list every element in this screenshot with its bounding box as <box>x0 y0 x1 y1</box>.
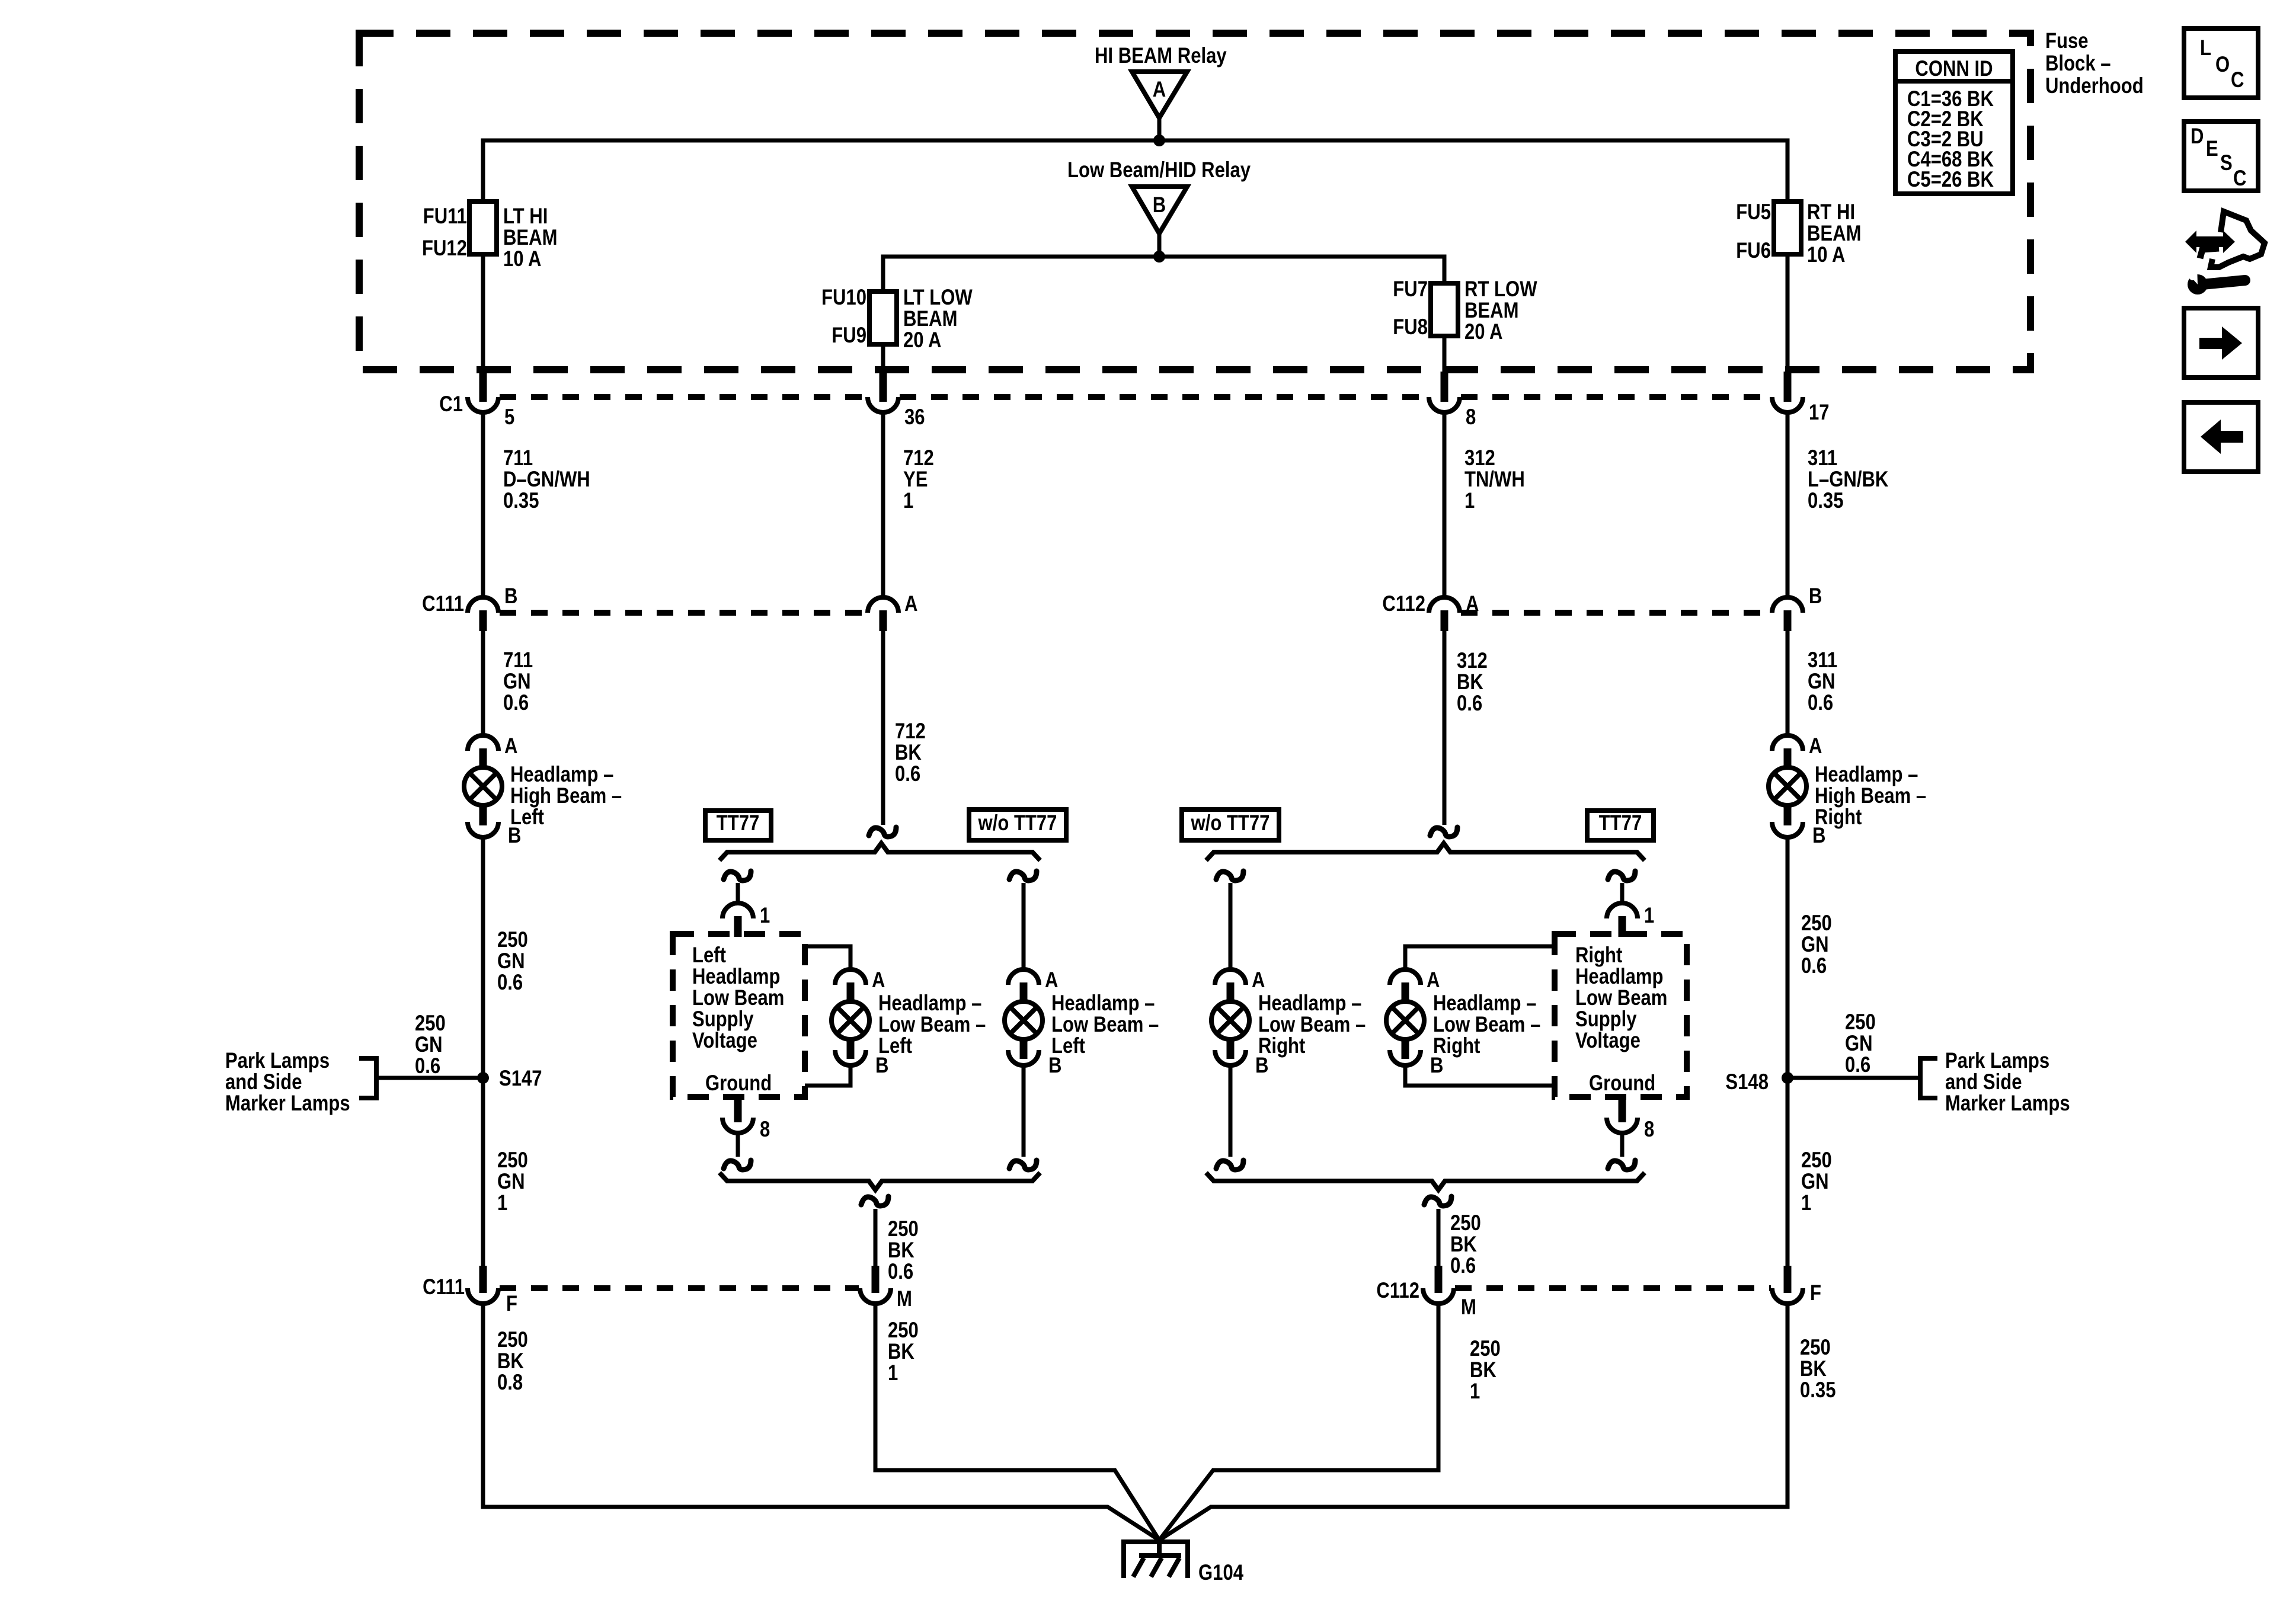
svg-text:F: F <box>506 1292 517 1316</box>
svg-text:GN: GN <box>415 1033 443 1057</box>
svg-text:8: 8 <box>1644 1118 1654 1142</box>
svg-text:B: B <box>1809 584 1822 609</box>
svg-text:FU8: FU8 <box>1393 315 1428 340</box>
svg-text:10 A: 10 A <box>503 247 541 271</box>
svg-text:TN/WH: TN/WH <box>1464 468 1525 492</box>
svg-text:GN: GN <box>497 949 525 974</box>
wire FU5 to C1 <box>1786 254 1790 372</box>
lamp headlamp low beam right (TT77) <box>1386 968 1443 1078</box>
svg-text:L: L <box>2200 36 2211 60</box>
connector C1 pin 17 <box>1772 372 1830 425</box>
label 711 GN 0.6 <box>503 648 533 715</box>
svg-text:A: A <box>904 592 917 616</box>
svg-text:Fuse: Fuse <box>2045 29 2089 53</box>
wire low beam feed bus <box>883 257 1444 292</box>
svg-text:Low Beam –: Low Beam – <box>1051 1013 1159 1037</box>
splice S148 <box>1725 1070 1793 1094</box>
CONN ID table <box>1895 52 2013 194</box>
svg-text:GN: GN <box>1845 1032 1873 1056</box>
wire 712 BK 0.6 <box>881 631 885 825</box>
label 250 GN 1 left <box>497 1148 528 1215</box>
option box TT77 left <box>705 811 771 840</box>
svg-text:A: A <box>1809 734 1822 758</box>
svg-text:FU7: FU7 <box>1393 277 1428 302</box>
svg-text:B: B <box>504 584 517 609</box>
svg-text:Underhood: Underhood <box>2045 74 2144 98</box>
svg-text:Ground: Ground <box>705 1071 772 1096</box>
connector C112 pin B <box>1772 584 1822 631</box>
fuse FU11/FU12 LT HI BEAM 10 A <box>422 201 557 271</box>
connector C111 pin M <box>860 1266 912 1311</box>
label Headlamp Low Beam Right (TT77) <box>1433 991 1540 1058</box>
wire low beam lamp left B to ground node <box>805 1065 850 1086</box>
wire high beam right to S148 <box>1786 837 1790 1266</box>
label 311 GN 0.6 <box>1808 648 1837 715</box>
svg-text:Low Beam –: Low Beam – <box>1258 1013 1366 1037</box>
svg-text:Right: Right <box>1815 805 1862 830</box>
wire hi beam feed bus <box>483 140 1787 201</box>
svg-text:1: 1 <box>1644 904 1654 928</box>
svg-text:GN: GN <box>503 670 531 694</box>
svg-text:Right: Right <box>1433 1034 1480 1058</box>
wire 311 GN 0.6 <box>1786 631 1790 736</box>
wire 250 BK 1 right to G104 <box>1159 1304 1438 1540</box>
svg-text:Right: Right <box>1575 943 1622 968</box>
svg-text:1: 1 <box>760 904 770 928</box>
svg-text:A: A <box>504 734 517 758</box>
svg-text:BK: BK <box>1800 1357 1827 1381</box>
connector C112 pin M <box>1423 1266 1476 1320</box>
svg-text:Left: Left <box>692 943 726 968</box>
svg-text:w/o TT77: w/o TT77 <box>978 811 1057 836</box>
svg-text:1: 1 <box>1801 1191 1811 1215</box>
svg-text:1: 1 <box>888 1361 898 1385</box>
svg-text:FU10: FU10 <box>821 286 866 310</box>
svg-text:5: 5 <box>504 405 514 430</box>
svg-text:C5=26 BK: C5=26 BK <box>1907 168 1994 192</box>
wire park lamps branch left <box>359 1058 483 1098</box>
icon forward arrow <box>2184 308 2258 377</box>
svg-text:Left: Left <box>510 805 544 830</box>
svg-text:LT HI: LT HI <box>503 204 548 229</box>
svg-text:Voltage: Voltage <box>692 1029 757 1053</box>
svg-text:BEAM: BEAM <box>1807 222 1861 246</box>
svg-text:711: 711 <box>503 648 533 673</box>
svg-text:0.6: 0.6 <box>415 1054 440 1078</box>
wire FU10 to C1 <box>881 344 885 372</box>
wire high beam left to S147 <box>481 837 485 1266</box>
svg-text:FU12: FU12 <box>422 236 467 261</box>
svg-text:711: 711 <box>503 446 533 470</box>
fuse FU5/FU6 RT HI BEAM 10 A <box>1736 200 1861 267</box>
lamp headlamp low beam left (w/o TT77) <box>1005 968 1061 1078</box>
svg-text:250: 250 <box>1801 911 1832 936</box>
svg-text:250: 250 <box>497 928 528 952</box>
component box Left Headlamp Low Beam Supply Voltage <box>673 934 805 1097</box>
svg-text:Headlamp –: Headlamp – <box>510 763 613 787</box>
label Park Lamps and Side Marker Lamps left <box>225 1049 350 1116</box>
label 712 BK 0.6 <box>895 719 926 786</box>
label C1 <box>439 392 463 417</box>
svg-text:20 A: 20 A <box>903 328 941 353</box>
wire park lamps branch right <box>1787 1058 1937 1098</box>
svg-text:Low Beam –: Low Beam – <box>878 1013 986 1037</box>
svg-text:Block –: Block – <box>2045 52 2111 76</box>
svg-text:Low Beam: Low Beam <box>1575 986 1667 1010</box>
svg-text:w/o TT77: w/o TT77 <box>1191 811 1270 836</box>
svg-text:250: 250 <box>888 1318 919 1343</box>
svg-text:BK: BK <box>1457 670 1483 694</box>
svg-text:250: 250 <box>1801 1148 1832 1173</box>
svg-text:FU6: FU6 <box>1736 239 1771 263</box>
label 250 BK 1 left <box>888 1318 919 1385</box>
svg-text:C111: C111 <box>422 592 464 616</box>
svg-text:A: A <box>1466 592 1479 616</box>
label 250 GN 0.6 park branch right <box>1845 1010 1876 1077</box>
svg-text:GN: GN <box>1801 1170 1829 1194</box>
connector C112 pin A <box>1429 592 1479 631</box>
svg-text:0.6: 0.6 <box>1801 954 1827 978</box>
wire left TT77 branch <box>736 883 740 903</box>
wire right w/o lamp down <box>1229 1065 1233 1157</box>
wire 250 BK 1 left to G104 <box>875 1304 1159 1540</box>
svg-text:LT LOW: LT LOW <box>903 286 973 310</box>
svg-text:250: 250 <box>415 1012 446 1036</box>
svg-text:0.6: 0.6 <box>1450 1254 1476 1278</box>
svg-text:0.6: 0.6 <box>497 971 523 995</box>
svg-text:Headlamp –: Headlamp – <box>878 991 981 1016</box>
svg-text:RT HI: RT HI <box>1807 200 1855 225</box>
junction relay B <box>1153 251 1165 263</box>
svg-text:312: 312 <box>1457 649 1488 673</box>
connector line C111 bottom dotted <box>500 1285 859 1291</box>
svg-text:C112: C112 <box>1382 592 1425 616</box>
wire break right TT77 branch bottom <box>1608 1160 1635 1170</box>
lamp headlamp low beam left (TT77) <box>832 968 888 1078</box>
svg-text:High Beam –: High Beam – <box>510 784 622 808</box>
svg-text:Headlamp: Headlamp <box>692 965 780 989</box>
svg-text:Marker Lamps: Marker Lamps <box>225 1092 350 1116</box>
svg-text:250: 250 <box>1800 1336 1831 1360</box>
svg-text:A: A <box>1045 968 1058 993</box>
svg-text:A: A <box>872 968 885 993</box>
svg-text:A: A <box>1252 968 1265 993</box>
svg-text:S147: S147 <box>499 1067 542 1091</box>
svg-text:L–GN/BK: L–GN/BK <box>1808 468 1889 492</box>
lamp headlamp high beam right <box>1769 734 1825 848</box>
wire 312 BK 0.6 <box>1443 631 1447 825</box>
svg-text:M: M <box>897 1287 912 1311</box>
label Headlamp Low Beam Left (w/o TT77) <box>1051 991 1159 1058</box>
svg-text:Headlamp –: Headlamp – <box>1258 991 1361 1016</box>
label 250 GN 0.6 park branch left <box>415 1012 446 1078</box>
svg-text:712: 712 <box>903 446 934 470</box>
wire break right TT77 branch top <box>1608 871 1635 881</box>
svg-text:1: 1 <box>903 489 913 513</box>
label C111 <box>422 592 464 616</box>
svg-text:0.35: 0.35 <box>1800 1378 1835 1403</box>
label Headlamp High Beam Left <box>510 763 622 830</box>
svg-text:High Beam –: High Beam – <box>1815 784 1926 808</box>
svg-text:C: C <box>2231 68 2244 92</box>
svg-text:10 A: 10 A <box>1807 243 1845 267</box>
fuse FU10/FU9 LT LOW BEAM 20 A <box>821 286 973 353</box>
svg-text:GN: GN <box>1801 933 1829 957</box>
svg-text:250: 250 <box>1450 1211 1481 1235</box>
wire FU7 to C1 <box>1443 336 1447 372</box>
icon vehicle service (car and wrench) <box>2183 212 2265 295</box>
svg-text:Low Beam: Low Beam <box>692 986 784 1010</box>
connector pin 1 left <box>722 903 770 937</box>
label Headlamp Low Beam Right (w/o TT77) <box>1258 991 1366 1058</box>
relay B Low Beam/HID Relay <box>1067 158 1251 257</box>
svg-text:0.6: 0.6 <box>888 1260 913 1284</box>
svg-text:BK: BK <box>888 1238 914 1263</box>
wire right TT77 branch <box>1620 883 1625 903</box>
svg-text:A: A <box>1153 78 1166 102</box>
svg-text:GN: GN <box>1808 670 1835 694</box>
svg-text:8: 8 <box>1466 405 1476 430</box>
svg-text:C112: C112 <box>1376 1279 1419 1303</box>
option brace right bottom <box>1206 1173 1645 1190</box>
svg-text:B: B <box>1153 193 1166 217</box>
label 311 L-GN/BK 0.35 <box>1808 446 1889 513</box>
svg-text:1: 1 <box>497 1191 507 1215</box>
svg-text:8: 8 <box>760 1118 770 1142</box>
label 711 D-GN/WH 0.35 <box>503 446 590 513</box>
svg-text:HI BEAM Relay: HI BEAM Relay <box>1095 44 1227 68</box>
wire break right w/o branch bottom <box>1216 1160 1243 1170</box>
svg-text:Park Lamps: Park Lamps <box>225 1049 330 1073</box>
fuse FU7/FU8 RT LOW BEAM 20 A <box>1393 277 1537 344</box>
svg-text:BK: BK <box>1470 1358 1496 1382</box>
label Headlamp Low Beam Left (TT77) <box>878 991 986 1058</box>
svg-text:M: M <box>1461 1295 1476 1320</box>
wire break left w/o branch top <box>1009 871 1037 881</box>
connector line C112 bottom dotted <box>1455 1285 1771 1291</box>
label C111 bottom <box>423 1275 465 1299</box>
wire break below left brace <box>861 1196 888 1206</box>
connector C111 pin F <box>468 1266 517 1316</box>
svg-text:O: O <box>2215 53 2230 77</box>
svg-text:Headlamp –: Headlamp – <box>1815 763 1918 787</box>
svg-text:C1: C1 <box>439 392 463 417</box>
svg-text:1: 1 <box>1470 1379 1480 1404</box>
svg-text:E: E <box>2206 137 2218 161</box>
svg-text:Supply: Supply <box>692 1007 754 1032</box>
wire 250 BK 0.6 left <box>874 1209 878 1267</box>
svg-text:Headlamp –: Headlamp – <box>1051 991 1155 1016</box>
svg-text:and Side: and Side <box>225 1070 302 1094</box>
svg-text:Low Beam –: Low Beam – <box>1433 1013 1540 1037</box>
wire break left TT77 branch top <box>724 871 751 881</box>
connector pin 8 left <box>722 1097 770 1142</box>
svg-text:D: D <box>2191 124 2204 149</box>
svg-text:C: C <box>2233 167 2246 191</box>
svg-text:RT LOW: RT LOW <box>1464 277 1537 302</box>
label 250 BK 0.35 <box>1800 1336 1835 1403</box>
svg-text:C111: C111 <box>423 1275 465 1299</box>
svg-text:D–GN/WH: D–GN/WH <box>503 468 590 492</box>
label 250 GN 0.6 right <box>1801 911 1832 978</box>
label Fuse Block Underhood <box>2045 29 2144 98</box>
svg-text:and Side: and Side <box>1945 1070 2022 1094</box>
wire 250 BK 0.6 right <box>1437 1209 1441 1267</box>
wire 711 D-GN/WH 0.35 <box>481 412 485 597</box>
svg-text:Supply: Supply <box>1575 1007 1637 1032</box>
component box Right Headlamp Low Beam Supply Voltage <box>1555 934 1687 1097</box>
wire left w/o lamp down <box>1022 1065 1026 1157</box>
svg-text:BK: BK <box>895 741 922 765</box>
option box w/o TT77 left <box>969 809 1066 840</box>
icon back arrow <box>2184 402 2258 472</box>
wire pin 8 right down <box>1620 1133 1625 1157</box>
connector pin 1 right <box>1607 903 1654 937</box>
junction relay A <box>1153 135 1165 146</box>
connector C1 pin 36 <box>868 372 925 430</box>
option brace left top <box>720 843 1040 860</box>
wire break below right brace <box>1424 1196 1451 1206</box>
svg-text:0.8: 0.8 <box>497 1371 523 1395</box>
label 312 TN/WH 1 <box>1464 446 1525 513</box>
wire pin 8 left down <box>736 1133 740 1157</box>
svg-text:0.6: 0.6 <box>1845 1053 1870 1077</box>
svg-text:BEAM: BEAM <box>503 226 557 250</box>
svg-text:Left: Left <box>878 1034 912 1058</box>
label 712 YE 1 <box>903 446 934 513</box>
label 250 BK 0.6 right <box>1450 1211 1481 1278</box>
relay A HI BEAM Relay <box>1095 44 1227 140</box>
label C112 bottom <box>1376 1279 1419 1303</box>
svg-text:36: 36 <box>904 405 925 430</box>
svg-text:Right: Right <box>1258 1034 1305 1058</box>
svg-text:Headlamp –: Headlamp – <box>1433 991 1536 1016</box>
wire 712 YE 1 <box>881 412 885 597</box>
svg-text:20 A: 20 A <box>1464 320 1502 344</box>
connector C1 pin 8 <box>1429 372 1476 430</box>
label Headlamp High Beam Right <box>1815 763 1926 830</box>
connector C111 pin A <box>868 592 917 631</box>
icon LOC <box>2184 28 2258 98</box>
lamp headlamp low beam right (w/o TT77) <box>1211 968 1268 1078</box>
label 250 BK 0.6 left <box>888 1217 919 1284</box>
connector line C112 dotted <box>1461 610 1771 616</box>
svg-text:BK: BK <box>497 1349 524 1374</box>
svg-text:Marker Lamps: Marker Lamps <box>1945 1092 2070 1116</box>
ground G104 <box>1124 1540 1243 1585</box>
svg-text:TT77: TT77 <box>1599 811 1642 836</box>
svg-text:S: S <box>2220 151 2233 175</box>
svg-text:BK: BK <box>888 1340 914 1364</box>
connector line C1 dotted <box>500 394 1771 400</box>
svg-text:250: 250 <box>497 1148 528 1173</box>
svg-text:Low Beam/HID Relay: Low Beam/HID Relay <box>1067 158 1251 183</box>
svg-text:Ground: Ground <box>1589 1071 1655 1096</box>
svg-text:BEAM: BEAM <box>1464 299 1518 323</box>
svg-text:0.35: 0.35 <box>1808 489 1843 513</box>
connector C111 pin B <box>468 584 517 631</box>
svg-text:Left: Left <box>1051 1034 1085 1058</box>
splice S147 <box>477 1067 542 1091</box>
option brace right top <box>1206 843 1645 860</box>
svg-text:250: 250 <box>1845 1010 1876 1035</box>
svg-text:0.35: 0.35 <box>503 489 539 513</box>
svg-text:312: 312 <box>1464 446 1495 470</box>
lamp headlamp high beam left <box>464 734 521 848</box>
svg-text:F: F <box>1810 1281 1821 1305</box>
option box w/o TT77 right <box>1182 809 1279 840</box>
connector pin 8 right <box>1607 1097 1654 1142</box>
svg-text:311: 311 <box>1808 648 1837 673</box>
svg-text:Headlamp: Headlamp <box>1575 965 1663 989</box>
label 312 BK 0.6 <box>1457 649 1488 716</box>
svg-text:17: 17 <box>1809 401 1830 425</box>
label C112 <box>1382 592 1425 616</box>
wire right w/o branch <box>1229 883 1233 969</box>
svg-text:YE: YE <box>903 468 928 492</box>
connector line C111 dotted <box>500 610 866 616</box>
wire break at right option brace <box>1430 827 1457 837</box>
svg-text:CONN ID: CONN ID <box>1915 57 1993 81</box>
wire 250 BK 0.8 to G104 <box>483 1304 1159 1540</box>
label 250 GN 0.6 left <box>497 928 528 995</box>
svg-text:BK: BK <box>1450 1233 1477 1257</box>
wire FU11 to C1 <box>481 254 485 372</box>
svg-text:1: 1 <box>1464 489 1475 513</box>
svg-text:GN: GN <box>497 1170 525 1194</box>
label Park Lamps and Side Marker Lamps right <box>1945 1049 2070 1116</box>
wire break left TT77 branch bottom <box>724 1160 751 1170</box>
svg-text:0.6: 0.6 <box>1457 692 1482 716</box>
connector C112 pin F <box>1772 1266 1821 1305</box>
fuse block underhood dashed outline <box>359 33 2030 370</box>
svg-text:311: 311 <box>1808 446 1837 470</box>
wire break left w/o branch bottom <box>1009 1160 1037 1170</box>
wire supply box to low beam lamp left <box>805 946 850 969</box>
svg-text:250: 250 <box>1470 1337 1501 1361</box>
wire left w/o branch <box>1022 883 1026 969</box>
wire break right w/o branch top <box>1216 871 1243 881</box>
option brace left bottom <box>720 1173 1040 1190</box>
icon DESC <box>2184 121 2258 191</box>
svg-text:0.6: 0.6 <box>1808 691 1833 715</box>
wire 250 BK 0.35 to G104 <box>1159 1304 1787 1540</box>
svg-text:G104: G104 <box>1198 1561 1243 1585</box>
option box TT77 right <box>1587 811 1654 840</box>
wire low beam lamp right B to ground node <box>1405 1065 1555 1086</box>
svg-text:0.6: 0.6 <box>895 762 920 786</box>
wire 311 L-GN/BK 0.35 <box>1786 412 1790 597</box>
svg-text:BEAM: BEAM <box>903 307 957 331</box>
wire 711 GN 0.6 <box>481 631 485 736</box>
svg-text:TT77: TT77 <box>717 811 760 836</box>
svg-text:712: 712 <box>895 719 926 744</box>
svg-text:250: 250 <box>497 1328 528 1352</box>
svg-text:Voltage: Voltage <box>1575 1029 1641 1053</box>
label 250 BK 0.8 <box>497 1328 528 1395</box>
svg-text:S148: S148 <box>1725 1070 1769 1094</box>
svg-text:A: A <box>1427 968 1440 993</box>
label 250 BK 1 right <box>1470 1337 1501 1404</box>
svg-text:FU9: FU9 <box>832 324 866 348</box>
svg-text:250: 250 <box>888 1217 919 1241</box>
svg-text:FU5: FU5 <box>1736 200 1771 225</box>
wire break at left option brace <box>869 827 896 837</box>
connector C1 pin 5 <box>468 372 514 430</box>
svg-text:FU11: FU11 <box>423 204 467 229</box>
label 250 GN 1 right <box>1801 1148 1832 1215</box>
wire 312 TN/WH 1 <box>1443 412 1447 597</box>
